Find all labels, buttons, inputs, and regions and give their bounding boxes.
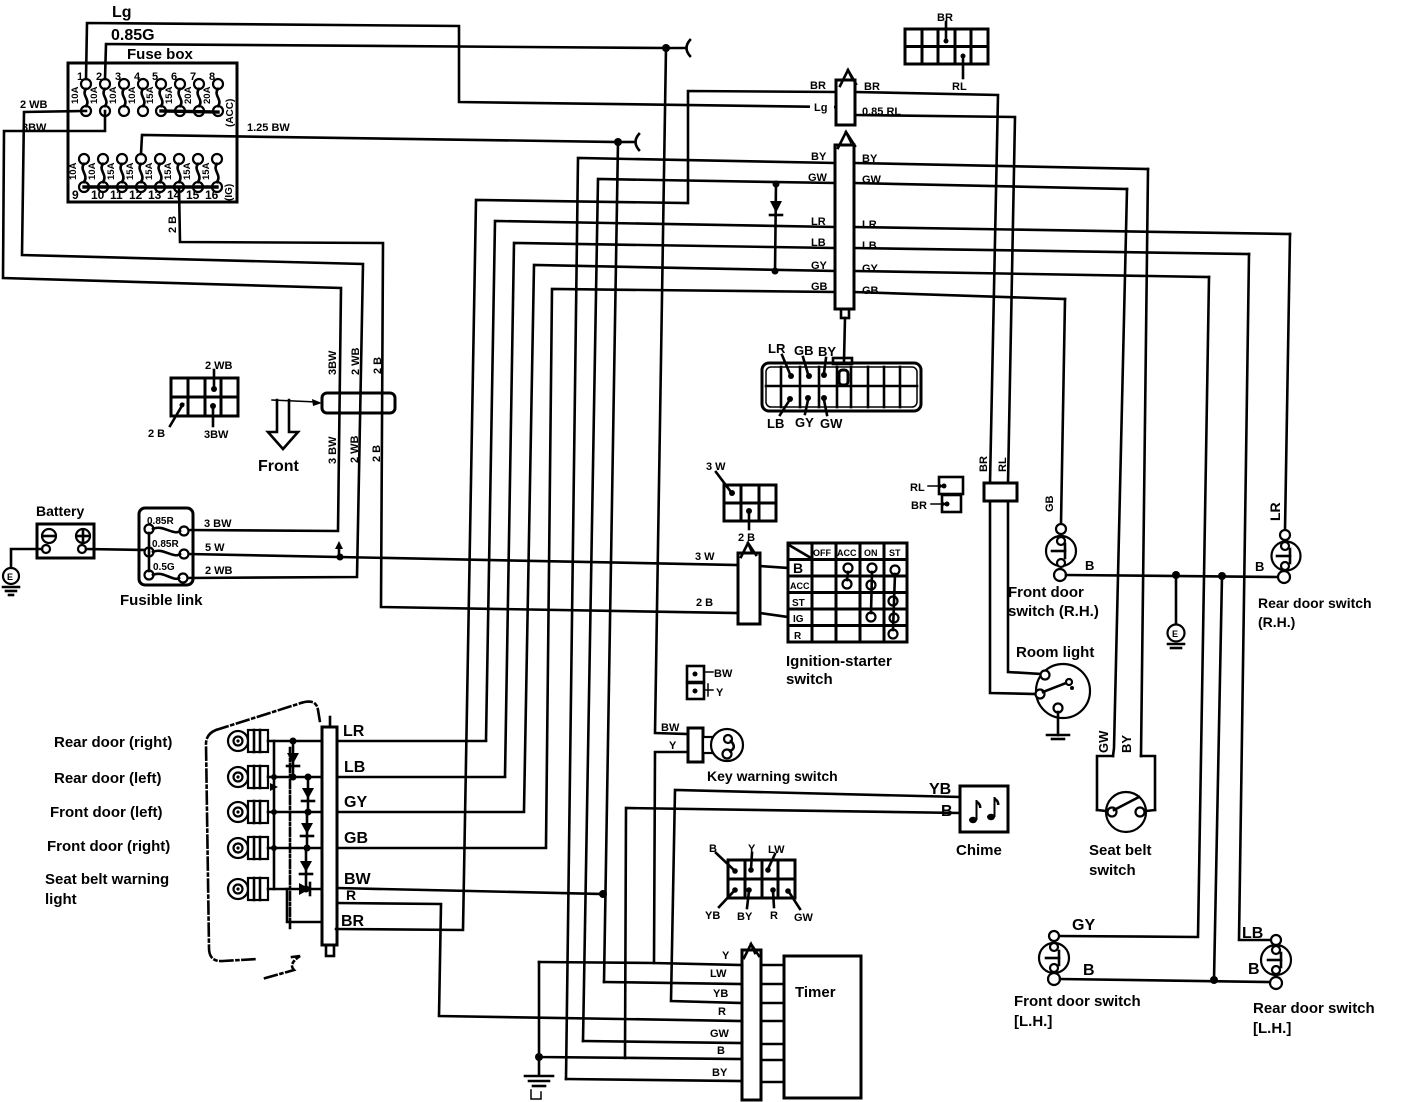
junction dot 5W: [337, 554, 344, 561]
ignition connector strip: [738, 553, 760, 624]
diode D4: [300, 848, 312, 893]
svg-text:10A: 10A: [89, 86, 100, 104]
battery B1: [37, 524, 94, 558]
svg-text:BR: BR: [978, 456, 990, 472]
BR cell: [931, 495, 961, 512]
wire LR row: [337, 740, 486, 743]
fuse 2 (10A): [89, 71, 110, 116]
wire BY row: [566, 1079, 742, 1081]
wire GW right: strip to corner and down: [854, 183, 1127, 189]
wire GW row: [583, 1041, 742, 1043]
wire LB right: strip to corner and down: [854, 248, 1249, 254]
svg-text:3 BW: 3 BW: [204, 518, 232, 530]
svg-text:ACC: ACC: [790, 581, 810, 591]
svg-text:Lg: Lg: [814, 102, 827, 114]
svg-text:Seat belt warning: Seat belt warning: [45, 871, 169, 888]
svg-text:B: B: [1085, 558, 1094, 573]
contact bar ON col: [871, 572, 872, 613]
stub GW strip to timer: [761, 1043, 784, 1046]
diode D5 horizontal: [299, 883, 310, 895]
wire GY left: strip to corner and down: [524, 265, 835, 810]
wire BW row to 1.25BW junction: [337, 888, 603, 894]
svg-text:3BW: 3BW: [204, 429, 229, 441]
central connector grid: [766, 367, 917, 407]
wire RL below bar to room light: [1008, 501, 1041, 674]
svg-text:9: 9: [72, 188, 79, 202]
svg-text:GW: GW: [1096, 730, 1111, 753]
key warning connector bar: [688, 728, 703, 762]
svg-text:2 WB: 2 WB: [20, 99, 48, 111]
wire GW left: strip to corner and down: [583, 179, 835, 1041]
svg-text:switch: switch: [1089, 862, 1136, 879]
label 0.85 RL: [860, 104, 908, 118]
wire 0.85G vertical down to key warning switch: [655, 48, 688, 734]
fuse 7 (20A): [183, 71, 204, 116]
svg-text:Front door: Front door: [1008, 584, 1084, 601]
svg-text:LB: LB: [344, 759, 365, 776]
svg-text:LW: LW: [768, 844, 785, 856]
leader GY: [805, 395, 811, 414]
svg-text:ST: ST: [792, 598, 805, 609]
fuse 3 (10A): [108, 71, 129, 116]
svg-text:[L.H.]: [L.H.]: [1253, 1020, 1291, 1037]
svg-text:Fuse box: Fuse box: [127, 46, 194, 63]
stub B strip to timer: [761, 1059, 784, 1062]
leader GB: [803, 357, 812, 379]
fuse bus IG (fuses 9-16 bottom): [84, 185, 217, 188]
wire LR right vertical to rear door switch RH: [1285, 234, 1290, 530]
rear door switch LH: [1261, 935, 1291, 989]
svg-text:10A: 10A: [108, 86, 119, 104]
svg-text:IG: IG: [793, 614, 804, 625]
harness arrow above ignition strip: [741, 543, 756, 557]
svg-text:BY: BY: [737, 911, 753, 923]
svg-text:GW: GW: [710, 1028, 730, 1040]
svg-text:2 B: 2 B: [167, 216, 179, 233]
wire LB left: strip to corner and down: [505, 243, 835, 776]
svg-text:15A: 15A: [201, 162, 212, 180]
fuse 14 (15A): [163, 154, 184, 202]
svg-text:B: B: [1255, 559, 1264, 574]
svg-text:BW: BW: [714, 668, 733, 680]
connector 2x4 (timer harness): [728, 860, 795, 898]
wire YB: chime to timer: [671, 790, 960, 1003]
svg-text:GW: GW: [820, 416, 843, 431]
diode D1: [287, 738, 299, 781]
wire lamp to bar: [268, 776, 322, 779]
leader LB: [780, 396, 793, 415]
connector hook on 0.85G: [670, 40, 690, 56]
diode D3: [301, 812, 313, 852]
wire 3BW: fuse2 bottom loop to fusible link: [3, 111, 341, 531]
wire jog to Y row: [539, 962, 654, 963]
wire GW right vertical to seat belt switch: [1113, 189, 1127, 756]
leader GW: [821, 395, 827, 415]
svg-text:2 WB: 2 WB: [205, 360, 233, 372]
svg-text:BY: BY: [818, 344, 836, 359]
wire BR right: strip to room light: [855, 92, 998, 483]
stub R strip to timer: [761, 1020, 784, 1023]
BR/RL inline connector bar: [984, 483, 1017, 501]
wire GY right vertical to front door switch LH: [1059, 277, 1209, 937]
svg-text:2 WB: 2 WB: [350, 347, 362, 375]
connector hook on 1.25BW: [622, 134, 639, 150]
ground (timer B): [525, 1057, 553, 1099]
svg-text:Front door switch: Front door switch: [1014, 993, 1141, 1010]
svg-text:YB: YB: [713, 988, 728, 1000]
svg-text:15A: 15A: [182, 162, 193, 180]
svg-text:RL: RL: [997, 457, 1009, 472]
fuse 8 (20A): [202, 71, 223, 116]
fuse 15 (15A): [182, 154, 203, 202]
svg-text:15A: 15A: [164, 86, 175, 104]
diode net left rail: [270, 741, 278, 889]
svg-text:OFF: OFF: [813, 548, 831, 558]
leader GW: [785, 888, 800, 909]
svg-text:Lg: Lg: [112, 4, 132, 21]
svg-text:Key warning switch: Key warning switch: [707, 768, 838, 784]
harness arrow on 5W wire: [335, 541, 343, 556]
wire lamp to bar: [268, 847, 322, 850]
svg-text:Front: Front: [258, 458, 300, 475]
connector strip 2: [835, 145, 854, 309]
fusible link element 3: [145, 571, 188, 583]
wire GB right: strip to corner and down: [854, 292, 1065, 299]
room light lamp: [1036, 664, 1091, 718]
wire 2B: fuse14 bottom to ignition switch: [179, 187, 738, 613]
fuse 11 (15A): [106, 154, 127, 202]
lamp seat belt warning: [228, 878, 268, 900]
svg-text:Y: Y: [669, 740, 677, 752]
wire 1.25BW: fuse12 top to junction and down to timer LW: [141, 135, 618, 154]
svg-text:2 WB: 2 WB: [205, 565, 233, 577]
leader BY: [746, 887, 752, 908]
door connector bar: [322, 717, 337, 956]
svg-text:BW: BW: [344, 871, 372, 888]
svg-text:1.25 BW: 1.25 BW: [247, 122, 290, 134]
ground E (battery): [3, 568, 19, 595]
svg-text:LW: LW: [710, 968, 727, 980]
svg-text:Fusible link: Fusible link: [120, 592, 203, 609]
leader Y: [748, 853, 754, 873]
chime notes: [969, 797, 1000, 823]
label Lg: [810, 99, 834, 114]
wire BY left: strip to corner and down: [566, 158, 835, 1079]
svg-text:R: R: [794, 631, 802, 642]
fuse 10 (10A): [87, 154, 108, 202]
svg-text:BY: BY: [1119, 735, 1134, 753]
stub Y strip to timer: [761, 964, 784, 967]
leader R: [770, 887, 776, 907]
wire Lg: fuse1 to connector strip: [86, 23, 836, 107]
fuse bus ACC (fuses 5-8 bottom): [161, 111, 218, 112]
leader RL into grid: [961, 54, 966, 79]
leader 3W: [716, 472, 735, 496]
wire R row to timer: [337, 903, 742, 1021]
svg-text:(ACC): (ACC): [225, 99, 236, 127]
svg-text:2 WB: 2 WB: [349, 435, 361, 463]
wire GY row: [337, 811, 524, 814]
wire LB row: [337, 776, 505, 779]
svg-text:RL: RL: [952, 81, 967, 93]
svg-text:LR: LR: [768, 341, 786, 356]
svg-text:2 B: 2 B: [372, 357, 384, 374]
svg-text:Battery: Battery: [36, 503, 84, 519]
front door switch RH: [1046, 524, 1076, 581]
wire lamp to bar: [268, 811, 322, 814]
svg-text:Y: Y: [716, 687, 724, 699]
wire LW row: [604, 982, 742, 984]
wire 0.85G: fuse2 top to junction: [105, 44, 666, 79]
svg-text:LB: LB: [862, 240, 877, 252]
svg-text:Y: Y: [722, 950, 730, 962]
leader BR into grid: [944, 22, 949, 44]
lamp rear door right: [228, 730, 268, 752]
stub to B row: [760, 566, 788, 568]
svg-text:GB: GB: [1044, 495, 1056, 512]
fuse 1 (10A): [70, 71, 91, 116]
leader 3BW into cell: [210, 403, 216, 426]
junction dot B down: [1218, 572, 1226, 580]
lamp rear door left: [228, 766, 268, 788]
wire LR right: strip to corner and down: [854, 227, 1290, 234]
stub LW strip to timer: [761, 983, 784, 986]
wire B: chime to timer B row: [625, 808, 960, 1058]
junction dot 0.85G: [662, 44, 670, 52]
svg-text:LB: LB: [767, 416, 784, 431]
timer connector strip: [742, 950, 761, 1100]
leader 2B into cell: [170, 403, 185, 427]
wire BR left: strip to door connector BR row: [336, 91, 836, 930]
svg-text:3 W: 3 W: [695, 551, 715, 563]
svg-text:B: B: [793, 560, 803, 576]
svg-text:ON: ON: [864, 548, 878, 558]
svg-text:BR: BR: [911, 500, 927, 512]
wire lamp to bar: [268, 740, 322, 743]
fuse 5 (15A): [145, 71, 166, 116]
svg-text:switch (R.H.): switch (R.H.): [1008, 603, 1099, 620]
svg-text:LR: LR: [1267, 502, 1283, 521]
svg-text:LR: LR: [862, 219, 877, 231]
svg-text:10A: 10A: [68, 162, 79, 180]
svg-text:light: light: [45, 891, 77, 908]
ground E (right): [1168, 579, 1185, 648]
leader 2B: [746, 508, 752, 529]
svg-text:BW: BW: [661, 722, 680, 734]
fusible link element 2: [145, 548, 189, 559]
arrow pointing to bar: [272, 399, 322, 406]
svg-text:E: E: [1172, 629, 1178, 639]
fuse box F1 outline: [68, 63, 237, 202]
wire battery positive to fusible link: [86, 549, 149, 550]
fuse 13 (15A): [144, 154, 165, 202]
front door switch LH: [1039, 931, 1069, 985]
junction dot BW: [599, 890, 607, 898]
svg-text:Rear door (right): Rear door (right): [54, 734, 172, 751]
fuse 12 (15A): [125, 154, 146, 202]
central connector C14 outer: [762, 363, 921, 411]
svg-text:Seat belt: Seat belt: [1089, 842, 1152, 859]
Front direction arrow: [268, 400, 298, 449]
wire GB right vertical to front door switch RH: [1061, 299, 1065, 524]
wire B down to LH switches: [1214, 576, 1222, 980]
wire 5W/3W: fusible link to ignition switch: [189, 554, 738, 565]
svg-text:BY: BY: [712, 1067, 728, 1079]
wire B row bottom: [1060, 979, 1270, 982]
wire GY right: strip to corner and down: [854, 271, 1209, 277]
wire BR below bar to room light: [990, 501, 1036, 694]
fusible link box: [139, 508, 193, 585]
connector strip 1: [836, 80, 855, 125]
central connector key slot: [839, 370, 848, 385]
wire battery negative to ground: [11, 549, 42, 568]
wire lamp to bar: [268, 888, 322, 891]
key warning bulb: [703, 729, 743, 761]
svg-text:15A: 15A: [145, 86, 156, 104]
junction dot B/ground: [535, 1053, 543, 1061]
leader YB: [719, 887, 738, 907]
svg-text:Chime: Chime: [956, 842, 1002, 859]
svg-text:Ignition-starter: Ignition-starter: [786, 653, 892, 670]
svg-text:GB: GB: [344, 830, 368, 847]
connector 2x3 (ignition harness): [724, 485, 776, 521]
svg-text:10A: 10A: [87, 162, 98, 180]
fuse 4 (10A): [127, 71, 148, 116]
svg-text:0.85G: 0.85G: [111, 27, 155, 44]
svg-text:BR: BR: [810, 80, 826, 92]
timer box: [784, 956, 861, 1098]
table corner diagonal: [789, 545, 811, 558]
svg-text:15A: 15A: [144, 162, 155, 180]
svg-text:10A: 10A: [127, 86, 138, 104]
junction dot B/E: [1172, 571, 1180, 579]
lamp front door right: [228, 837, 268, 859]
ignition-starter switch table: [788, 543, 907, 642]
svg-text:GY: GY: [795, 415, 814, 430]
lamp front door left: [228, 801, 268, 823]
leader LR: [782, 355, 794, 379]
svg-text:0.85R: 0.85R: [152, 539, 179, 550]
svg-text:15A: 15A: [125, 162, 136, 180]
central connector top tab: [833, 358, 852, 364]
svg-text:15A: 15A: [106, 162, 117, 180]
svg-text:B: B: [1248, 961, 1260, 978]
seat belt switch body: [1097, 756, 1155, 811]
svg-text:3BW: 3BW: [327, 350, 339, 375]
svg-text:BR: BR: [341, 913, 365, 930]
svg-text:GB: GB: [862, 285, 879, 297]
chime box: [960, 786, 1008, 832]
svg-text:BY: BY: [811, 151, 827, 163]
fusible link internal bus: [148, 533, 151, 571]
svg-text:R: R: [718, 1006, 726, 1018]
connector grid 2x5: [905, 29, 988, 64]
leader LW: [765, 854, 775, 873]
svg-text:LB: LB: [1242, 925, 1263, 942]
wire 0.85RL: strip to room light switch: [855, 115, 1015, 483]
svg-text:B: B: [717, 1045, 725, 1057]
harness arrow above strip 2: [838, 132, 855, 148]
fuse 9 (10A): [68, 154, 89, 202]
junction dot B bottom: [1210, 976, 1218, 984]
svg-text:2 B: 2 B: [148, 428, 165, 440]
svg-text:5 W: 5 W: [205, 542, 225, 554]
svg-text:R: R: [770, 910, 778, 922]
diode net dashed rail: [289, 748, 292, 928]
svg-text:YB: YB: [705, 910, 720, 922]
diode D2: [302, 774, 314, 816]
svg-text:RL: RL: [910, 482, 925, 494]
svg-text:(IG): (IG): [224, 184, 235, 201]
wire BY right vertical to seat belt switch: [1141, 169, 1148, 756]
stub to IG row: [760, 613, 788, 617]
connector 2x4 (body harness): [171, 378, 238, 416]
svg-text:Room light: Room light: [1016, 644, 1094, 661]
svg-text:20A: 20A: [183, 86, 194, 104]
svg-text:[L.H.]: [L.H.]: [1014, 1013, 1052, 1030]
svg-text:LR: LR: [343, 723, 365, 740]
lamp5 branch to bar lower row: [287, 889, 322, 922]
wire 1.25BW vertical: [604, 142, 618, 982]
harness arrow above timer strip: [744, 944, 759, 958]
harness arrow above strip 1: [840, 70, 856, 86]
svg-text:GY: GY: [1072, 917, 1095, 934]
RL cell: [928, 477, 963, 494]
svg-text:switch: switch: [786, 671, 833, 688]
svg-text:3 BW: 3 BW: [327, 436, 339, 464]
svg-text:2 B: 2 B: [696, 597, 713, 609]
seat belt switch: [1106, 792, 1146, 832]
wire LB right vertical to rear door switch LH: [1239, 254, 1271, 940]
svg-text:R: R: [346, 887, 356, 903]
svg-text:Rear door switch: Rear door switch: [1258, 595, 1372, 611]
fuse 6 (15A): [164, 71, 185, 116]
svg-text:20A: 20A: [202, 86, 213, 104]
connector BW/Y cells: [687, 666, 713, 699]
svg-text:GW: GW: [794, 912, 814, 924]
leader 2WB into cell: [211, 370, 217, 392]
contact bar ACC col: [847, 572, 848, 580]
svg-text:Timer: Timer: [795, 984, 836, 1001]
diode on GW-GY link: [770, 181, 782, 275]
stub BY strip to timer: [761, 1081, 784, 1084]
svg-text:E: E: [7, 572, 13, 582]
svg-text:0.5G: 0.5G: [153, 562, 175, 573]
fusible link element 1: [145, 525, 189, 536]
svg-text:GY: GY: [344, 794, 367, 811]
svg-text:2 B: 2 B: [371, 445, 383, 462]
fuse 16 (15A): [201, 154, 222, 202]
wire LR left: strip to corner and down: [486, 221, 835, 740]
contact bar ST col: [893, 574, 895, 630]
svg-text:10A: 10A: [70, 86, 81, 104]
wire GB left: strip to corner and down: [546, 289, 835, 846]
svg-text:(R.H.): (R.H.): [1258, 614, 1295, 630]
leader B: [716, 853, 738, 874]
rear door switch RH: [1272, 530, 1301, 583]
leader BY: [821, 358, 827, 378]
svg-text:ACC: ACC: [837, 548, 857, 558]
dash-dot harness outline: [206, 702, 320, 979]
svg-text:Front door (right): Front door (right): [47, 838, 170, 855]
svg-text:B: B: [1083, 962, 1095, 979]
wire B bus: [1066, 575, 1278, 577]
svg-text:Rear door switch: Rear door switch: [1253, 1000, 1375, 1017]
room light ground: [1047, 712, 1069, 739]
svg-text:2 B: 2 B: [738, 532, 755, 544]
inline connector bar (3BW/2WB/2B harness): [322, 393, 395, 413]
svg-text:15A: 15A: [163, 162, 174, 180]
